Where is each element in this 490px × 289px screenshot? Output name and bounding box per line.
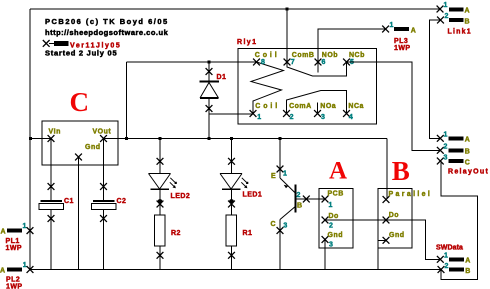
relay contact NOb stub xyxy=(317,62,319,73)
svg-text:http://sheepdogsoftware.co.uk: http://sheepdogsoftware.co.uk xyxy=(45,28,169,37)
wire box A gnd down to rail xyxy=(324,240,326,270)
svg-text:5: 5 xyxy=(350,59,354,66)
wire NOb up and right to PL3 xyxy=(318,29,386,62)
svg-text:1: 1 xyxy=(390,22,394,29)
svg-text:A: A xyxy=(411,28,417,35)
node junction D1 column on VOut rail xyxy=(208,137,211,140)
LED LED2 xyxy=(149,139,191,216)
box A pin 3 Gnd xyxy=(322,236,329,243)
wire Gnd column down to ground rail xyxy=(78,157,80,270)
node junction LED2 on VOut rail xyxy=(159,137,162,140)
svg-text:3: 3 xyxy=(283,223,287,230)
svg-text:SWData: SWData xyxy=(436,245,463,252)
svg-text:Coil: Coil xyxy=(255,52,280,59)
relay coil zigzag xyxy=(251,62,284,114)
svg-text:B: B xyxy=(465,149,471,156)
svg-text:Link1: Link1 xyxy=(448,29,472,36)
svg-text:VOut: VOut xyxy=(93,129,112,136)
svg-text:ComB: ComB xyxy=(292,52,315,59)
box B xyxy=(378,189,412,249)
svg-text:C: C xyxy=(465,160,471,167)
svg-text:1: 1 xyxy=(444,2,448,9)
svg-text:2: 2 xyxy=(290,114,294,121)
relay contact NOa stub xyxy=(317,103,319,114)
node junction ComB on top rail xyxy=(286,8,289,11)
diode D1 xyxy=(200,62,227,139)
svg-text:C: C xyxy=(70,87,90,117)
svg-text:A: A xyxy=(465,8,471,15)
svg-text:LED2: LED2 xyxy=(171,193,191,200)
relay pin 1 Coil xyxy=(250,110,257,117)
svg-text:1: 1 xyxy=(444,253,448,260)
svg-text:1: 1 xyxy=(257,114,261,121)
svg-text:R1: R1 xyxy=(243,230,253,237)
svg-text:1: 1 xyxy=(23,262,27,269)
connector Ver marker pin xyxy=(43,40,50,47)
svg-text:R2: R2 xyxy=(171,230,181,237)
svg-text:3: 3 xyxy=(329,242,333,249)
svg-text:Started 2 July 05: Started 2 July 05 xyxy=(45,49,117,58)
box B pin 2 Do xyxy=(383,217,390,224)
svg-text:ComA: ComA xyxy=(289,103,312,110)
svg-text:B: B xyxy=(465,19,471,26)
transistor Q1 xyxy=(271,139,326,270)
svg-text:LED1: LED1 xyxy=(243,192,263,199)
svg-text:NCb: NCb xyxy=(349,52,365,59)
svg-text:B: B xyxy=(465,268,471,275)
svg-text:3: 3 xyxy=(444,155,448,162)
svg-text:Do: Do xyxy=(389,212,399,219)
wire data line A pin2 to B pin2 to SWData pin1 xyxy=(325,220,440,259)
svg-text:A: A xyxy=(1,229,7,236)
box B pin 1 Parallel xyxy=(383,196,390,203)
LED LED1 xyxy=(220,139,262,216)
svg-text:Coil: Coil xyxy=(255,103,280,110)
wire VOut column down to ground rail xyxy=(103,139,105,202)
box B pin 3 Gnd xyxy=(383,237,390,244)
svg-text:2: 2 xyxy=(445,13,449,20)
svg-text:Gnd: Gnd xyxy=(389,232,405,239)
wire bottom ground rail xyxy=(30,269,441,271)
svg-text:8: 8 xyxy=(261,59,265,66)
connector Link1 xyxy=(437,2,472,36)
svg-text:Parallel: Parallel xyxy=(389,191,433,198)
svg-text:1WP: 1WP xyxy=(6,284,23,289)
resistor R2 xyxy=(155,215,181,270)
wire ComB drop from top rail to relay pin 7 xyxy=(286,9,288,62)
svg-text:E: E xyxy=(271,173,276,180)
relay pin 7 ComB xyxy=(284,59,291,66)
svg-text:7: 7 xyxy=(291,59,295,66)
connector PL3 xyxy=(382,22,416,52)
svg-text:D1: D1 xyxy=(217,74,227,81)
relay contact arm A xyxy=(287,91,347,114)
capacitor C2 xyxy=(92,183,127,222)
capacitor C1 xyxy=(39,183,74,222)
wire coil top feed to relay pin 8 xyxy=(127,61,257,63)
svg-text:1WP: 1WP xyxy=(394,45,411,52)
relay Rly1 box xyxy=(238,49,377,125)
regulator U-C box xyxy=(42,121,118,165)
svg-text:C1: C1 xyxy=(64,198,74,205)
svg-text:NOa: NOa xyxy=(320,103,336,110)
connector PL1 xyxy=(1,223,34,252)
svg-text:1: 1 xyxy=(23,223,27,230)
svg-text:B: B xyxy=(392,156,410,186)
svg-text:6: 6 xyxy=(322,59,326,66)
relay pin 6 NOb xyxy=(315,59,322,66)
svg-text:NOb: NOb xyxy=(322,52,338,59)
svg-text:A: A xyxy=(0,268,6,275)
svg-text:1: 1 xyxy=(283,171,287,178)
relay pin 5 NCb xyxy=(343,59,350,66)
relay pin 8 Coil xyxy=(253,59,260,66)
box A xyxy=(319,189,353,249)
resistor R1 xyxy=(226,215,252,270)
svg-text:A: A xyxy=(329,158,347,185)
svg-text:PCB: PCB xyxy=(328,191,344,198)
svg-text:A: A xyxy=(465,258,471,265)
node junction LED1 on VOut rail xyxy=(230,137,233,140)
pin VOut X xyxy=(100,135,107,142)
wire left vertical rail xyxy=(29,9,31,270)
node junction on VOut rail at x126.5 xyxy=(125,137,128,140)
box A pin 2 Do xyxy=(322,217,329,224)
box A pin 1 PCB xyxy=(322,196,329,203)
connector RelayOut xyxy=(437,132,489,176)
svg-text:NCa: NCa xyxy=(348,103,364,110)
svg-text:2: 2 xyxy=(445,263,449,270)
svg-text:2: 2 xyxy=(444,144,448,151)
svg-text:B: B xyxy=(297,202,303,209)
svg-text:PCB206 (c) TK Boyd 6/05: PCB206 (c) TK Boyd 6/05 xyxy=(45,17,169,26)
wire corner down to box B top xyxy=(386,139,388,199)
wire box B gnd left and down to rail xyxy=(378,240,386,269)
connector SWData xyxy=(436,245,471,276)
svg-text:PL3: PL3 xyxy=(394,38,408,45)
wire NCb right, down, to RelayOut pin2 xyxy=(347,62,441,150)
svg-text:C: C xyxy=(271,221,277,228)
relay pin 3 NOa xyxy=(314,110,321,117)
svg-text:Rly1: Rly1 xyxy=(237,39,257,46)
relay contact arm B xyxy=(287,62,347,76)
svg-text:Do: Do xyxy=(329,213,339,220)
wire VIn column down to ground rail xyxy=(50,139,52,202)
wire riser x126.5 to coil wire xyxy=(126,62,128,139)
relay pin 2 ComA xyxy=(283,110,290,117)
svg-text:3: 3 xyxy=(321,114,325,121)
svg-text:C2: C2 xyxy=(117,198,127,205)
svg-text:PL2: PL2 xyxy=(6,277,20,284)
wire VOut horizontal rail xyxy=(104,138,388,140)
svg-text:1: 1 xyxy=(329,202,333,209)
svg-text:4: 4 xyxy=(349,114,353,121)
wire D1 to relay coil pin 1 xyxy=(209,113,253,115)
wire Link1 pin2 down to RelayOut pin1 xyxy=(429,20,440,138)
svg-text:Gnd: Gnd xyxy=(328,232,344,239)
connector PL2 xyxy=(0,262,33,289)
svg-text:VIn: VIn xyxy=(49,129,61,136)
svg-text:PL1: PL1 xyxy=(6,238,20,245)
pin VIn X xyxy=(48,135,55,142)
svg-text:2: 2 xyxy=(297,192,301,199)
svg-text:RelayOut: RelayOut xyxy=(448,169,489,176)
svg-text:Gnd: Gnd xyxy=(85,144,101,151)
node junction VIn on left rail xyxy=(29,137,32,140)
node junction D1 top xyxy=(208,61,211,64)
relay pin 4 NCa xyxy=(343,110,350,117)
svg-text:1WP: 1WP xyxy=(6,245,23,252)
wire RelayOut pin3 loop to SWData pin2 xyxy=(441,161,478,279)
wire top +V rail xyxy=(30,8,440,10)
pin Gnd X xyxy=(75,154,82,161)
svg-text:1: 1 xyxy=(444,132,448,139)
svg-text:A: A xyxy=(465,137,471,144)
svg-text:2: 2 xyxy=(329,223,333,230)
node junction Q1 emitter on VOut rail xyxy=(279,137,282,140)
wire VIn from left rail xyxy=(30,138,51,140)
